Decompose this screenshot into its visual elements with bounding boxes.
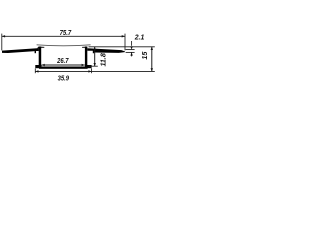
svg-text:35.9: 35.9: [58, 74, 70, 83]
svg-text:75.7: 75.7: [60, 28, 72, 37]
svg-text:2.1: 2.1: [134, 33, 145, 42]
svg-text:26.7: 26.7: [56, 56, 69, 65]
svg-text:11.8: 11.8: [98, 52, 107, 66]
svg-text:15: 15: [140, 51, 149, 60]
